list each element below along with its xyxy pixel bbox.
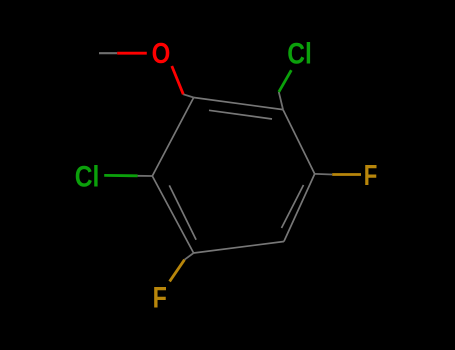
wire ring bond V4-V5	[194, 242, 284, 254]
wire Cl(left) bond green half	[104, 174, 137, 177]
svg-text:F: F	[153, 281, 167, 314]
wire F(bottom) bond goldenrod half	[170, 260, 185, 282]
wire double bond inner line left	[169, 185, 196, 239]
svg-text:O: O	[152, 37, 171, 70]
wire methyl C-O bond gray half	[99, 52, 117, 54]
wire O-ring bond gray half	[183, 94, 193, 97]
wire double bond inner line top	[209, 110, 272, 119]
wire Cl(top) bond green half	[279, 70, 292, 92]
wire F(right) bond goldenrod half	[332, 173, 361, 176]
svg-text:Cl: Cl	[287, 36, 312, 70]
wire double bond inner line right	[282, 185, 304, 228]
wire Cl(top) bond gray half	[279, 92, 283, 110]
wire Cl(left) bond gray half	[138, 175, 153, 177]
wire ring bond V2-V3	[283, 110, 315, 174]
svg-text:Cl: Cl	[75, 159, 100, 193]
wire methyl C-O bond red half	[117, 52, 147, 55]
wire F(bottom) bond gray half	[185, 253, 194, 260]
wire O-ring bond red half	[172, 66, 184, 94]
wire ring bond V5-V6	[152, 176, 193, 253]
wire ring bond V6-V1	[152, 98, 193, 177]
wire ring bond V1-V2	[194, 98, 283, 110]
wire F(right) bond gray half	[315, 173, 333, 176]
wire ring bond V3-V4	[284, 174, 315, 242]
benzene ring carbon skeleton	[152, 98, 314, 254]
svg-text:F: F	[364, 160, 378, 191]
